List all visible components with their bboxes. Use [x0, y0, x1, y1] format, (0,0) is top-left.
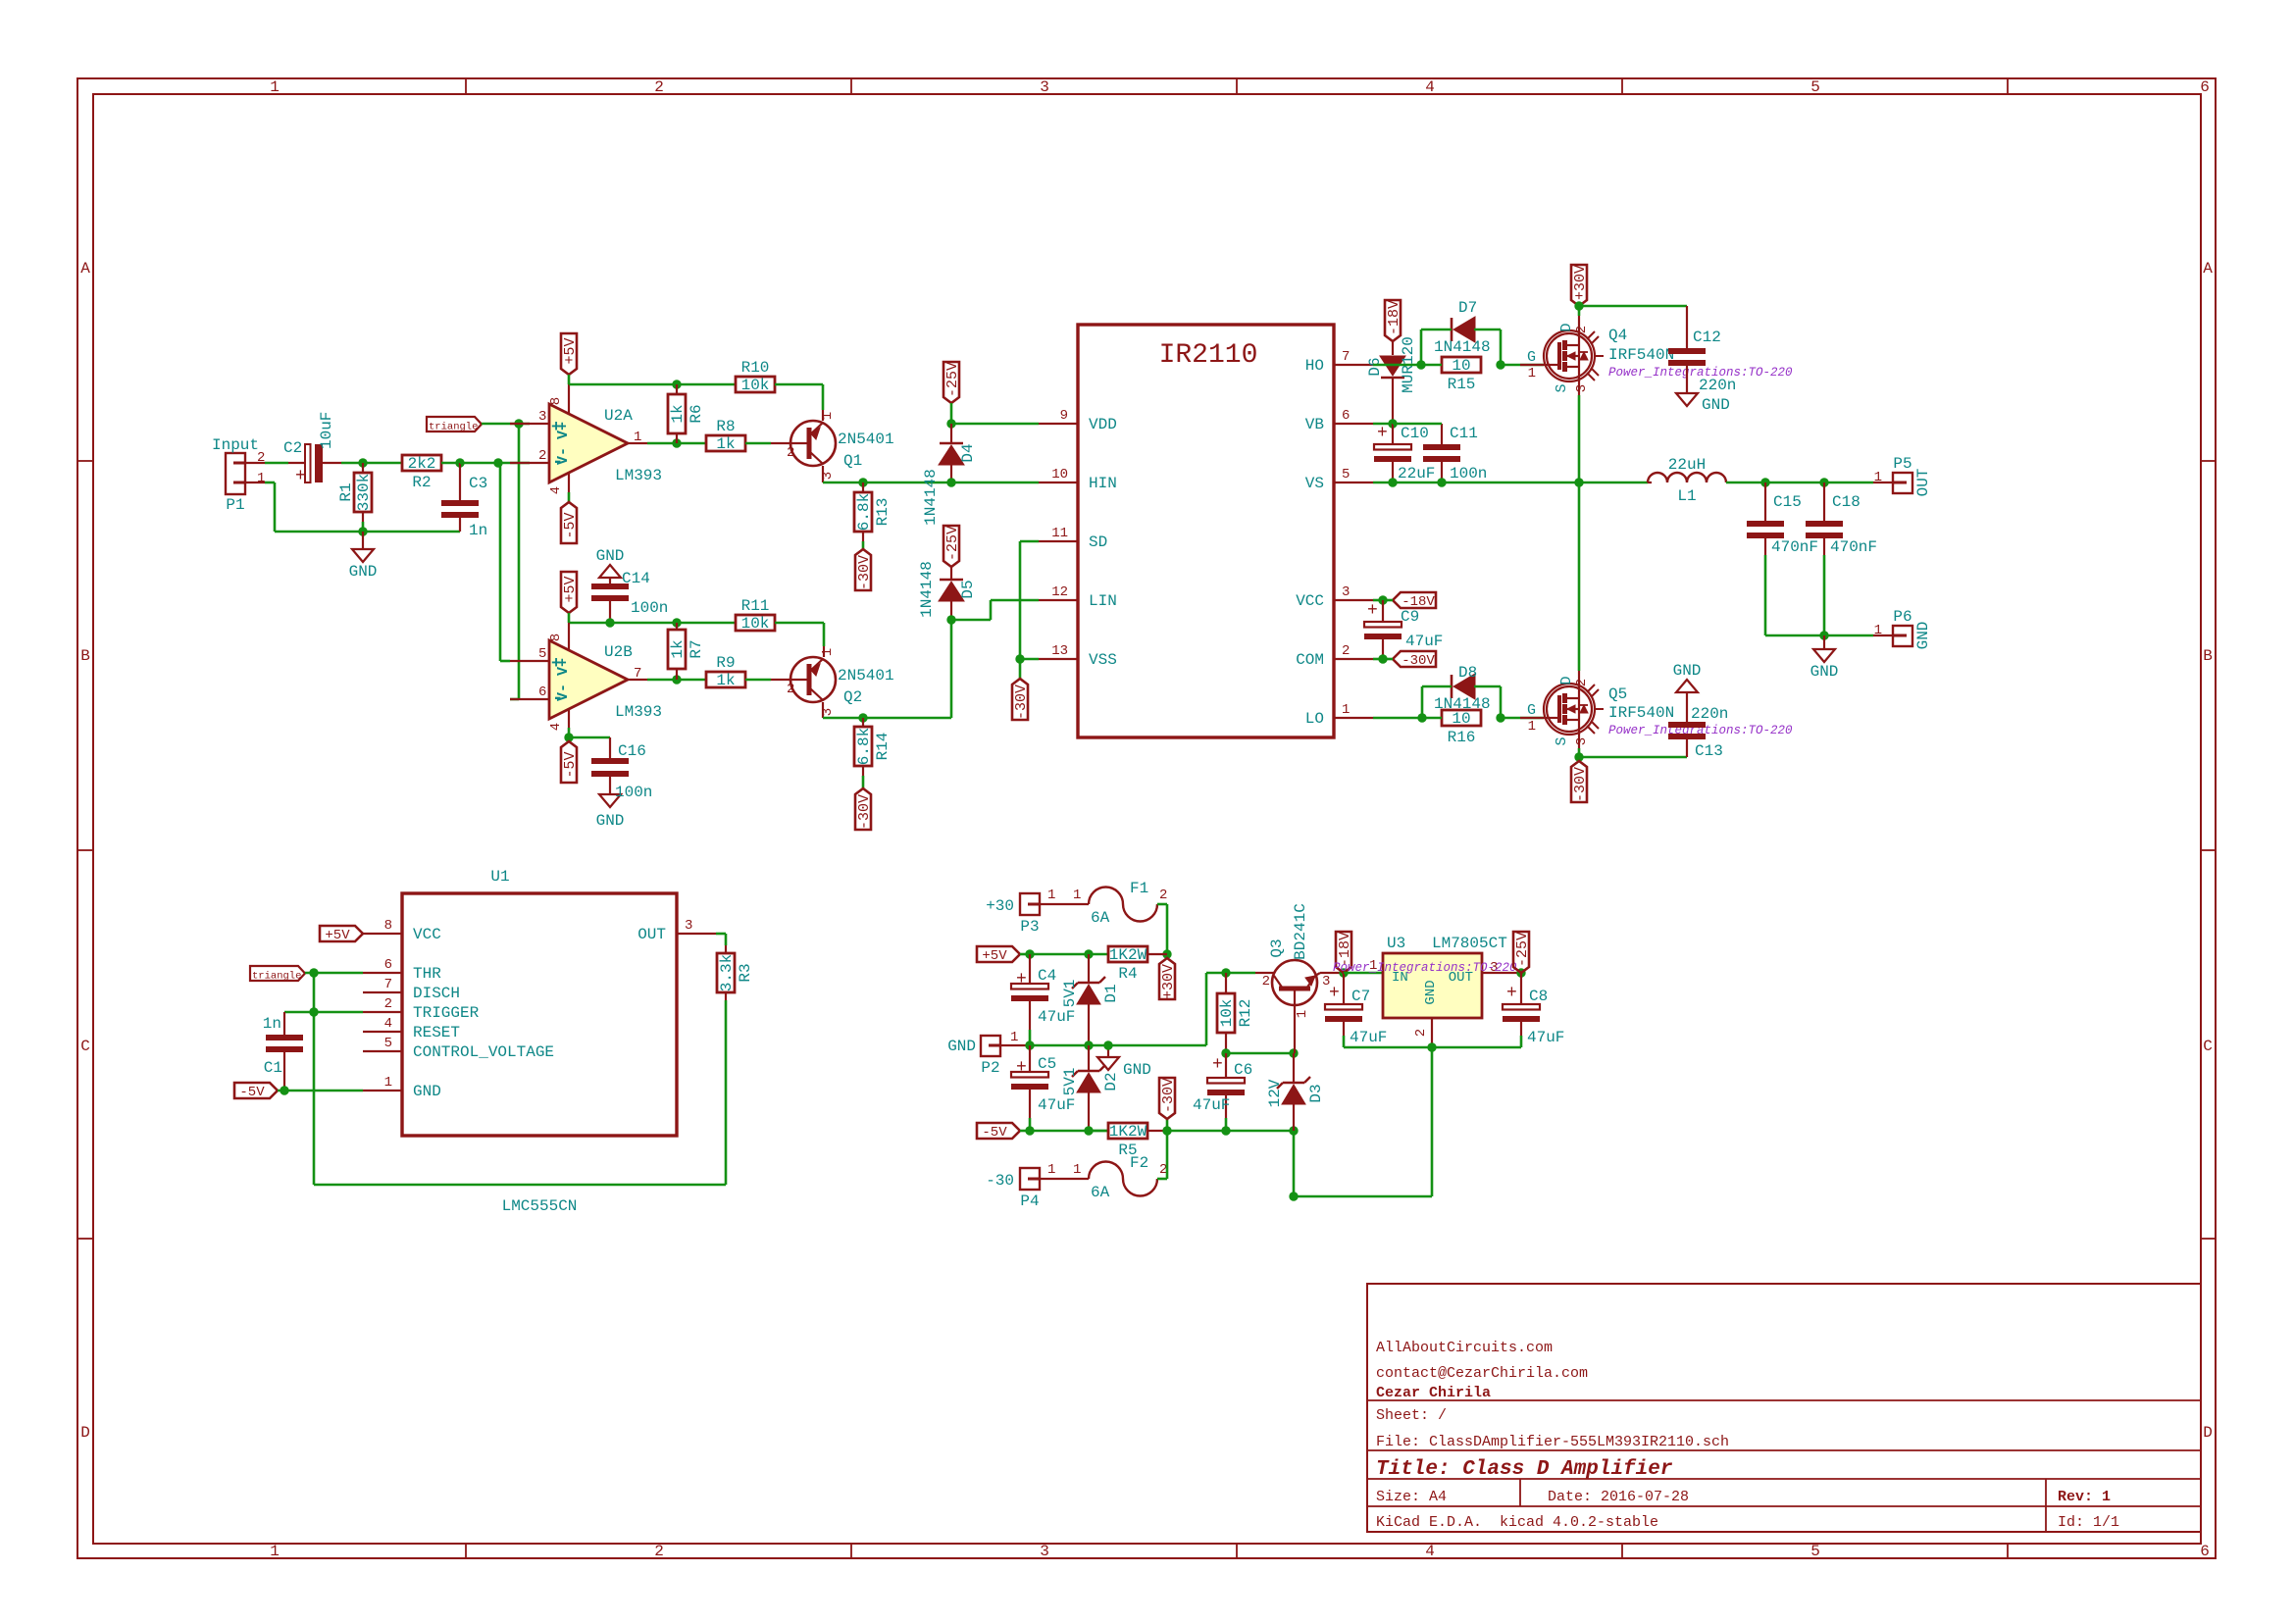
- svg-text:VCC: VCC: [413, 926, 441, 943]
- wire +5V row: [1030, 953, 1089, 956]
- junction C5 bottom: [1025, 1126, 1034, 1135]
- title block: [1367, 1284, 2201, 1532]
- svg-text:contact@CezarChirila.com: contact@CezarChirila.com: [1376, 1365, 1588, 1382]
- svg-text:1K2W: 1K2W: [1109, 1123, 1147, 1141]
- svg-text:9: 9: [1060, 408, 1068, 424]
- pin 9 VDD: [1039, 423, 1078, 425]
- svg-text:V+: V+: [555, 658, 572, 676]
- svg-text:10: 10: [1452, 357, 1470, 375]
- svg-text:A: A: [80, 260, 90, 278]
- svg-text:R13: R13: [874, 498, 892, 527]
- wire -5V row right: [1167, 1130, 1294, 1133]
- junction R7 top: [672, 618, 681, 627]
- wire R2 to U2A pin2: [460, 462, 530, 465]
- svg-text:+: +: [1367, 601, 1378, 621]
- capacitor C4: [1029, 954, 1031, 984]
- svg-text:Size: A4: Size: A4: [1376, 1489, 1447, 1505]
- svg-text:-30V: -30V: [856, 794, 873, 830]
- power flag -18V above D6: [1385, 300, 1401, 341]
- junction HIN: [946, 478, 955, 486]
- svg-text:Q3: Q3: [1268, 939, 1286, 957]
- wire triangle to U2A pin3: [482, 423, 530, 426]
- svg-text:LM393: LM393: [615, 467, 662, 484]
- svg-text:2: 2: [384, 996, 392, 1012]
- resistor R13: [862, 482, 864, 492]
- wire base row: [1226, 972, 1255, 975]
- svg-text:10k: 10k: [1218, 999, 1236, 1028]
- svg-text:10k: 10k: [741, 377, 770, 394]
- junction -18V node: [1339, 968, 1348, 977]
- power flag -30V below VSS: [1019, 659, 1022, 679]
- svg-text:C13: C13: [1695, 742, 1723, 760]
- resistor R10: [736, 377, 775, 392]
- resistor R4: [1089, 953, 1108, 956]
- op-amp U2B: [510, 660, 549, 662]
- resistor R14: [862, 718, 864, 727]
- wire LO: [1373, 717, 1422, 720]
- power flag -30V at COM: [1393, 651, 1436, 667]
- transistor Q2: [771, 679, 790, 681]
- svg-text:-30: -30: [986, 1172, 1014, 1190]
- power flag +5V U2B: [561, 572, 577, 613]
- svg-text:C4: C4: [1038, 967, 1056, 985]
- svg-text:+30: +30: [986, 897, 1014, 915]
- junction VCC: [1373, 599, 1383, 602]
- svg-text:1k: 1k: [716, 435, 735, 453]
- svg-text:P4: P4: [1020, 1193, 1039, 1210]
- svg-text:47uF: 47uF: [1038, 1096, 1075, 1114]
- svg-text:C12: C12: [1693, 329, 1721, 346]
- capacitor C13 with GND: [1579, 756, 1687, 759]
- svg-text:Sheet: /: Sheet: /: [1376, 1407, 1447, 1424]
- svg-text:2N5401: 2N5401: [838, 667, 894, 685]
- svg-text:triangle: triangle: [252, 971, 301, 983]
- svg-text:D4: D4: [959, 443, 977, 462]
- junction VS Q4 source: [1574, 478, 1583, 486]
- svg-text:R1: R1: [337, 482, 355, 501]
- svg-text:Cezar Chirila: Cezar Chirila: [1376, 1385, 1491, 1401]
- capacitor C14 with GND: [609, 577, 611, 579]
- svg-text:C9: C9: [1401, 608, 1419, 626]
- svg-text:47uF: 47uF: [1193, 1096, 1230, 1114]
- junction COM: [1373, 658, 1383, 661]
- svg-text:VB: VB: [1305, 416, 1324, 433]
- svg-text:IRF540N: IRF540N: [1608, 704, 1674, 722]
- svg-text:47uF: 47uF: [1527, 1029, 1564, 1046]
- svg-text:C: C: [80, 1038, 90, 1055]
- svg-text:R9: R9: [716, 654, 735, 672]
- junction VS C11: [1437, 478, 1446, 486]
- svg-text:1: 1: [1528, 366, 1536, 381]
- svg-text:1: 1: [1010, 1030, 1018, 1045]
- svg-text:D3: D3: [1307, 1084, 1325, 1102]
- svg-text:B: B: [2203, 647, 2213, 665]
- junction gnd filter: [1819, 631, 1828, 639]
- svg-text:5: 5: [538, 646, 546, 662]
- power flag -5V U2A: [561, 502, 577, 543]
- junction C18: [1819, 478, 1828, 486]
- junction TRIGGER: [309, 1007, 318, 1016]
- svg-text:2k2: 2k2: [408, 455, 436, 473]
- connector P5: [1873, 482, 1893, 483]
- svg-text:470nF: 470nF: [1830, 538, 1877, 556]
- svg-text:2: 2: [787, 682, 794, 697]
- diode D5: [940, 579, 963, 582]
- junction R14 top: [858, 713, 867, 722]
- pin 1 LO: [1334, 717, 1373, 719]
- power flag +5V U1: [320, 926, 363, 941]
- svg-text:1: 1: [257, 471, 265, 486]
- svg-text:7: 7: [1342, 349, 1350, 365]
- svg-text:GND: GND: [596, 812, 625, 830]
- power flag -30V below R14: [855, 788, 871, 830]
- svg-text:3: 3: [1574, 737, 1590, 745]
- svg-text:R16: R16: [1448, 729, 1476, 746]
- svg-text:LIN: LIN: [1089, 592, 1117, 610]
- svg-text:1: 1: [1874, 470, 1882, 485]
- svg-text:GND: GND: [1810, 663, 1839, 681]
- svg-text:+: +: [1016, 970, 1027, 990]
- svg-text:C7: C7: [1351, 988, 1370, 1005]
- svg-text:RESET: RESET: [413, 1024, 460, 1041]
- wire base node row: [1226, 1052, 1294, 1055]
- pin 7 HO: [1334, 364, 1373, 366]
- svg-text:GND: GND: [1123, 1061, 1151, 1079]
- transistor Q3: [1255, 972, 1275, 974]
- svg-text:-25V: -25V: [944, 526, 961, 561]
- svg-text:1: 1: [1073, 1162, 1081, 1178]
- svg-text:C11: C11: [1450, 425, 1478, 442]
- junction D1 top: [1084, 949, 1093, 958]
- wire F2 up: [1157, 1178, 1167, 1181]
- svg-text:6.8k: 6.8k: [855, 728, 873, 765]
- resistor R3: [716, 933, 726, 936]
- svg-text:Q4: Q4: [1608, 327, 1627, 344]
- svg-text:GND: GND: [947, 1038, 976, 1055]
- pin 13 VSS: [1039, 658, 1078, 660]
- junction R5 right: [1162, 1126, 1171, 1135]
- svg-text:6A: 6A: [1091, 1184, 1110, 1201]
- svg-text:1: 1: [270, 1543, 280, 1560]
- svg-text:R11: R11: [741, 597, 770, 615]
- junction D1 bottom: [1084, 1040, 1093, 1049]
- svg-text:U3: U3: [1387, 935, 1405, 952]
- svg-text:4: 4: [548, 486, 564, 494]
- wire HO: [1373, 364, 1421, 367]
- svg-text:22uF: 22uF: [1398, 465, 1435, 482]
- junction R6 bottom: [672, 438, 681, 447]
- svg-text:1n: 1n: [469, 522, 487, 539]
- svg-text:V-: V-: [555, 447, 572, 465]
- power flag -30V PSU: [1166, 1119, 1169, 1131]
- svg-text:Power_Integrations:TO-220: Power_Integrations:TO-220: [1333, 961, 1517, 975]
- diode D7 loop: [1420, 330, 1423, 365]
- svg-text:R14: R14: [874, 733, 892, 761]
- svg-text:D8: D8: [1458, 664, 1477, 682]
- wire Q1 emitter to HIN: [823, 482, 1039, 484]
- power flag -30V below R13: [855, 549, 871, 590]
- svg-text:1: 1: [1528, 719, 1536, 735]
- IC U2? IR2110: [1078, 325, 1334, 737]
- junction C15: [1760, 478, 1769, 486]
- IC U3 LM7805CT: [1344, 972, 1383, 975]
- svg-text:1K2W: 1K2W: [1109, 946, 1147, 964]
- resistor R5: [1089, 1130, 1108, 1133]
- svg-text:F1: F1: [1130, 880, 1148, 897]
- wire R10 to Q1 collector: [775, 383, 823, 386]
- svg-text:CONTROL_VOLTAGE: CONTROL_VOLTAGE: [413, 1043, 554, 1061]
- junction THR: [309, 968, 318, 977]
- svg-text:47uF: 47uF: [1350, 1029, 1387, 1046]
- svg-text:G: G: [1527, 349, 1536, 366]
- svg-text:GND: GND: [413, 1083, 441, 1100]
- gnd row psu: [1030, 1044, 1108, 1047]
- pin 7 DISCH: [363, 991, 402, 993]
- svg-text:S: S: [1554, 383, 1570, 392]
- svg-text:-25V: -25V: [944, 362, 961, 397]
- svg-text:Q2: Q2: [843, 688, 862, 706]
- svg-text:2: 2: [538, 448, 546, 464]
- svg-text:COM: COM: [1296, 651, 1324, 669]
- junction R12 top: [1221, 968, 1230, 977]
- svg-text:7: 7: [634, 666, 641, 682]
- svg-text:P5: P5: [1893, 455, 1912, 473]
- svg-text:Input: Input: [212, 436, 259, 454]
- zener D1: [1088, 954, 1090, 983]
- power flag +5V U2A: [561, 333, 577, 375]
- junction D2 bottom: [1084, 1126, 1093, 1135]
- junction D7 left: [1416, 360, 1425, 369]
- svg-text:C14: C14: [622, 570, 650, 587]
- svg-text:7: 7: [384, 977, 392, 992]
- junction Q5 source: [1574, 752, 1583, 761]
- svg-text:100n: 100n: [631, 599, 668, 617]
- junction R16 right: [1496, 713, 1504, 722]
- svg-text:P6: P6: [1893, 608, 1912, 626]
- svg-text:L1: L1: [1677, 487, 1696, 505]
- junction C4 top: [1025, 949, 1034, 958]
- svg-text:4: 4: [1425, 1543, 1435, 1560]
- junction R1 top: [358, 458, 367, 467]
- svg-text:KiCad E.D.A. kicad 4.0.2-stab: KiCad E.D.A. kicad 4.0.2-stable: [1376, 1514, 1658, 1531]
- svg-text:5: 5: [1810, 78, 1820, 96]
- power flag -30V below Q5: [1578, 757, 1581, 761]
- svg-text:C2: C2: [283, 439, 302, 457]
- svg-text:C8: C8: [1529, 988, 1548, 1005]
- svg-text:F2: F2: [1130, 1154, 1148, 1172]
- junction VSS: [1015, 654, 1024, 663]
- svg-text:-5V: -5V: [982, 1125, 1007, 1141]
- svg-text:1: 1: [820, 648, 836, 656]
- power flag -18V PSU: [1336, 932, 1351, 973]
- svg-text:R12: R12: [1237, 999, 1254, 1028]
- resistor R7: [676, 623, 678, 630]
- svg-text:2: 2: [1413, 1029, 1429, 1037]
- svg-text:1: 1: [384, 1075, 392, 1091]
- svg-text:1: 1: [1874, 623, 1882, 638]
- svg-text:C1: C1: [264, 1059, 282, 1077]
- svg-text:330k: 330k: [355, 474, 373, 511]
- svg-text:1: 1: [1342, 702, 1350, 718]
- pin 6 VB: [1334, 423, 1373, 425]
- power flag +30V PSU: [1166, 954, 1169, 958]
- junction U3 out: [1516, 968, 1525, 977]
- junction R15 right: [1496, 360, 1504, 369]
- svg-text:6.8k: 6.8k: [855, 493, 873, 531]
- svg-text:6: 6: [384, 957, 392, 973]
- svg-text:D7: D7: [1458, 299, 1477, 317]
- svg-text:2: 2: [654, 1543, 664, 1560]
- svg-text:3: 3: [1342, 584, 1350, 600]
- svg-text:R8: R8: [716, 418, 735, 435]
- svg-text:1N4148: 1N4148: [922, 469, 940, 526]
- svg-text:6: 6: [1342, 408, 1350, 424]
- connector P6: [1873, 634, 1893, 636]
- svg-text:4: 4: [548, 723, 564, 731]
- power flag +30V: [1571, 265, 1587, 306]
- capacitor C1: [283, 1012, 285, 1035]
- svg-text:LO: LO: [1305, 710, 1324, 728]
- svg-text:3: 3: [685, 918, 692, 934]
- wire VS row: [1373, 482, 1648, 484]
- capacitor C5: [1029, 1045, 1031, 1072]
- power flag -5V U2B: [561, 741, 577, 783]
- junction R4 right: [1162, 949, 1171, 958]
- inductor L1: [1648, 482, 1652, 483]
- svg-text:3.3k: 3.3k: [718, 954, 736, 991]
- svg-text:Q5: Q5: [1608, 685, 1627, 703]
- wire Q2 emitter row: [823, 717, 951, 720]
- junction VDD: [946, 419, 955, 428]
- pin 11 SD: [1039, 540, 1078, 542]
- svg-text:A: A: [2203, 260, 2213, 278]
- svg-text:47uF: 47uF: [1038, 1008, 1075, 1026]
- svg-text:VCC: VCC: [1296, 592, 1324, 610]
- svg-text:V-: V-: [555, 684, 572, 701]
- svg-text:Id: 1/1: Id: 1/1: [2058, 1514, 2119, 1531]
- junction in- node: [493, 458, 502, 467]
- svg-text:R7: R7: [688, 639, 705, 658]
- svg-text:SD: SD: [1089, 533, 1107, 551]
- connector P1: [226, 453, 245, 494]
- svg-text:C16: C16: [618, 742, 646, 760]
- svg-text:10k: 10k: [741, 615, 770, 633]
- svg-text:+5V: +5V: [325, 928, 350, 943]
- resistor R15: [1442, 357, 1481, 373]
- svg-text:+5V: +5V: [562, 576, 579, 602]
- svg-text:1k: 1k: [669, 639, 687, 658]
- svg-text:C10: C10: [1401, 425, 1429, 442]
- svg-text:R10: R10: [741, 359, 770, 377]
- svg-text:1N4148: 1N4148: [1434, 338, 1491, 356]
- svg-text:8: 8: [548, 634, 564, 641]
- svg-text:6: 6: [538, 685, 546, 700]
- wire L1 to P5: [1726, 482, 1873, 484]
- wire D5 to LIN: [951, 619, 991, 622]
- svg-text:6: 6: [2200, 1543, 2210, 1560]
- wire C2 to R2: [341, 462, 402, 465]
- transistor Q5: [1501, 717, 1544, 720]
- svg-text:GND: GND: [349, 563, 378, 581]
- pin 1 GND: [363, 1090, 402, 1091]
- pin 2 COM: [1334, 658, 1373, 660]
- svg-text:1N4148: 1N4148: [918, 561, 936, 618]
- ground symbol psu: [1107, 1045, 1109, 1057]
- svg-text:5: 5: [1810, 1543, 1820, 1560]
- svg-text:2: 2: [1574, 326, 1590, 333]
- resistor R16: [1442, 710, 1481, 726]
- wire Q2 row to D5 column: [950, 620, 953, 718]
- svg-text:C5: C5: [1038, 1055, 1056, 1073]
- svg-text:-30V: -30V: [1572, 767, 1589, 802]
- svg-text:IRF540N: IRF540N: [1608, 346, 1674, 364]
- svg-text:R15: R15: [1448, 376, 1476, 393]
- svg-text:5: 5: [384, 1036, 392, 1051]
- svg-text:-5V: -5V: [239, 1085, 265, 1100]
- svg-text:C3: C3: [469, 475, 487, 492]
- svg-text:2: 2: [257, 450, 265, 466]
- pin 12 LIN: [1039, 599, 1078, 601]
- svg-text:GND: GND: [596, 547, 625, 565]
- svg-text:D: D: [80, 1424, 90, 1442]
- svg-text:3: 3: [1040, 78, 1049, 96]
- svg-text:2N5401: 2N5401: [838, 431, 894, 448]
- power flag -25V above D4: [943, 362, 959, 403]
- svg-text:-5V: -5V: [562, 512, 579, 538]
- junction R7 bottom: [672, 675, 681, 684]
- junction R6 top: [672, 380, 681, 388]
- svg-text:P2: P2: [981, 1059, 999, 1077]
- svg-text:OUT: OUT: [637, 926, 666, 943]
- transistor Q4: [1578, 306, 1581, 316]
- wire gnd row filter: [1765, 634, 1873, 637]
- pin 3 VCC: [1334, 599, 1373, 601]
- svg-text:+5V: +5V: [562, 337, 579, 364]
- svg-text:LM393: LM393: [615, 703, 662, 721]
- svg-text:THR: THR: [413, 965, 441, 983]
- junction C14 rail: [605, 618, 614, 627]
- svg-text:1k: 1k: [669, 404, 687, 423]
- svg-text:100n: 100n: [1450, 465, 1487, 482]
- wire U2B out: [647, 679, 706, 682]
- svg-text:220n: 220n: [1699, 377, 1736, 394]
- svg-text:D6: D6: [1366, 357, 1384, 376]
- svg-text:C15: C15: [1773, 493, 1802, 511]
- svg-text:Title: Class D Amplifier: Title: Class D Amplifier: [1376, 1458, 1673, 1481]
- svg-text:3: 3: [1040, 1543, 1049, 1560]
- svg-text:S: S: [1554, 736, 1570, 745]
- svg-text:2: 2: [1262, 974, 1270, 990]
- svg-text:LMC555CN: LMC555CN: [502, 1197, 578, 1215]
- svg-text:OUT: OUT: [1914, 469, 1932, 497]
- capacitor C2: [288, 462, 305, 464]
- wire F1 down: [1166, 904, 1169, 954]
- junction VB: [1388, 419, 1397, 428]
- svg-text:C: C: [2203, 1038, 2213, 1055]
- svg-text:11: 11: [1051, 526, 1068, 541]
- resistor R11: [736, 615, 775, 631]
- wire U2A out: [647, 442, 706, 445]
- svg-text:R2: R2: [412, 474, 431, 491]
- zener D2: [1088, 1045, 1090, 1071]
- svg-text:Date: 2016-07-28: Date: 2016-07-28: [1548, 1489, 1689, 1505]
- svg-text:C18: C18: [1832, 493, 1861, 511]
- svg-text:8: 8: [384, 918, 392, 934]
- svg-text:Rev: 1: Rev: 1: [2058, 1489, 2111, 1505]
- capacitor C12 with GND: [1579, 305, 1687, 308]
- gnd wire row: [275, 531, 460, 533]
- capacitor C18: [1823, 482, 1825, 521]
